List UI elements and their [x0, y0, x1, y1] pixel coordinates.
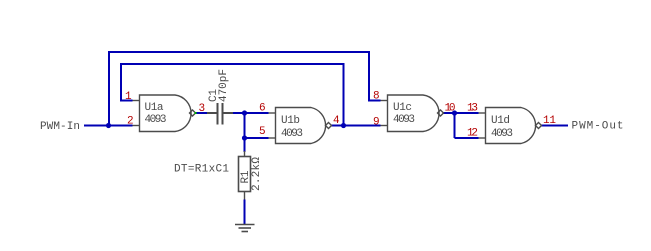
svg-text:11: 11 — [543, 115, 556, 127]
wire inner feedback vertical right — [343, 63, 345, 126]
junction node R1/pin5 — [242, 135, 247, 140]
wire junction to U1b pin 5 — [245, 137, 269, 139]
svg-text:U1c: U1c — [393, 102, 412, 114]
svg-text:4093: 4093 — [281, 128, 303, 140]
svg-text:9: 9 — [373, 117, 380, 129]
svg-text:U1d: U1d — [491, 115, 510, 127]
svg-text:6: 6 — [259, 103, 266, 115]
wire PWM-In lead to U1a pin 2 — [84, 125, 133, 127]
svg-text:3: 3 — [199, 103, 206, 115]
resistor R1 — [239, 151, 251, 200]
nand gate U1a body — [133, 95, 196, 132]
wire outer feedback vertical left — [108, 51, 110, 126]
svg-text:5: 5 — [259, 126, 266, 138]
svg-text:PWM-Out: PWM-Out — [572, 121, 624, 133]
svg-text:U1b: U1b — [281, 115, 300, 127]
svg-text:DT=R1xC1: DT=R1xC1 — [174, 164, 229, 176]
junction node PWM-In — [106, 123, 111, 128]
wire inner feedback vertical left — [120, 63, 122, 102]
svg-text:4093: 4093 — [145, 114, 167, 126]
wire node 10 drop to pin 12 row — [454, 113, 456, 138]
nand gate U1b body — [269, 108, 332, 144]
wire junction to U1d pin 12 — [455, 137, 479, 139]
wire U1a output pin 3 to C1 — [196, 112, 208, 114]
nand gate U1d body — [479, 108, 542, 144]
svg-text:PWM-In: PWM-In — [40, 121, 80, 133]
wire C1 to node junction — [233, 112, 269, 114]
wire outer feedback vertical right — [368, 51, 370, 102]
junction node pin 10 — [452, 110, 457, 115]
svg-text:U1a: U1a — [145, 102, 164, 114]
wire U1c output pin 10 to U1d pin 13 — [444, 112, 479, 114]
ground symbol — [235, 225, 255, 232]
wire node drop to pin 5 row — [244, 113, 246, 138]
svg-text:10: 10 — [445, 103, 456, 115]
svg-text:4: 4 — [333, 115, 340, 127]
nand gate U1c body — [381, 95, 444, 132]
capacitor C1 — [207, 103, 233, 125]
wire inner feedback pin 1 stub — [121, 100, 133, 102]
svg-text:13: 13 — [467, 103, 478, 115]
junction node pin 4 feedback — [341, 123, 346, 128]
svg-text:12: 12 — [467, 128, 478, 140]
svg-text:2: 2 — [127, 116, 134, 128]
svg-text:4093: 4093 — [491, 128, 513, 140]
svg-text:470pF: 470pF — [218, 69, 230, 102]
wire U1d output pin 11 to PWM-Out — [542, 125, 569, 127]
svg-text:1: 1 — [125, 91, 132, 103]
wire R1 to ground — [244, 200, 246, 225]
wire U1b output pin 4 to U1c pin 9 — [332, 125, 381, 127]
svg-text:4093: 4093 — [393, 114, 415, 126]
svg-text:8: 8 — [373, 91, 380, 103]
wire outer feedback top — [108, 51, 370, 53]
junction node C1/R1/pin6 — [242, 110, 247, 115]
wire U1c pin 8 stub — [368, 100, 381, 102]
wire junction down to R1 — [244, 138, 246, 152]
svg-text:2.2kΩ: 2.2kΩ — [251, 157, 263, 191]
op pin dot U1a — [195, 112, 197, 114]
wire inner feedback top — [120, 63, 345, 65]
